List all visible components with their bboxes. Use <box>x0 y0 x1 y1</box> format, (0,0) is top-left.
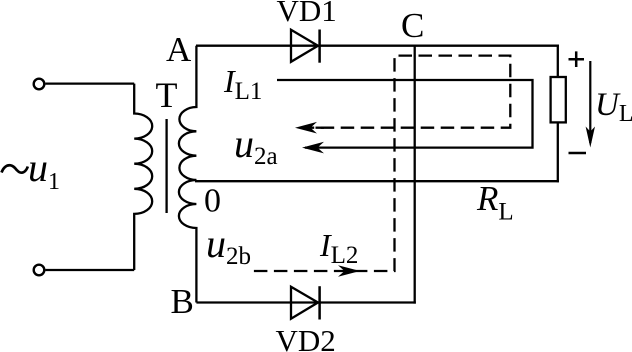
wire bottom-left to primary <box>46 269 135 271</box>
terminal top-left <box>34 79 45 90</box>
secondary winding lower (0 to B) <box>179 180 197 303</box>
svg-text:IL1: IL1 <box>223 63 262 105</box>
wire right vertical lower <box>557 121 559 182</box>
arrowhead I_L1 (points left) <box>302 142 324 154</box>
arrowhead I_L2 return (points left) <box>295 122 317 134</box>
current path I_L2 dashed loop <box>253 56 510 271</box>
diode VD2 <box>291 286 320 319</box>
svg-text:A: A <box>166 30 192 69</box>
svg-text:B: B <box>171 282 194 321</box>
diode VD1 <box>291 30 320 63</box>
svg-text:u1: u1 <box>28 145 60 195</box>
current path I_L1 solid loop <box>277 80 533 148</box>
wire node C vertical <box>414 46 416 304</box>
arrowhead U_L (points down) <box>586 127 595 148</box>
minus sign <box>569 152 587 155</box>
svg-text:UL: UL <box>595 87 632 127</box>
current path I_L2 arrow tail solid bridge <box>316 127 325 129</box>
svg-text:C: C <box>401 6 424 45</box>
svg-text:T: T <box>156 75 178 115</box>
svg-text:u2a: u2a <box>234 121 278 170</box>
terminal bottom-left <box>34 265 45 276</box>
label ~u1 tilde <box>2 165 28 172</box>
transformer T primary winding <box>134 84 152 270</box>
svg-text:RL: RL <box>476 179 514 226</box>
svg-text:VD1: VD1 <box>277 0 337 28</box>
wire right vertical upper <box>557 45 559 78</box>
arrowhead I_L2 forward (points right) <box>338 265 360 277</box>
U_L arrow shaft <box>589 61 591 143</box>
wire top A to RL <box>196 45 559 47</box>
secondary winding upper (A to 0) <box>179 46 197 180</box>
wire center tap 0 to RL bottom <box>195 180 559 182</box>
wire bottom B to C <box>196 301 415 303</box>
plus sign <box>569 51 585 67</box>
svg-text:u2b: u2b <box>206 221 251 270</box>
svg-text:0: 0 <box>204 183 221 220</box>
svg-text:IL2: IL2 <box>319 227 358 269</box>
svg-text:VD2: VD2 <box>276 323 336 352</box>
resistor RL body <box>551 77 566 122</box>
wire top-left to primary <box>46 82 135 84</box>
transformer core <box>165 119 167 213</box>
